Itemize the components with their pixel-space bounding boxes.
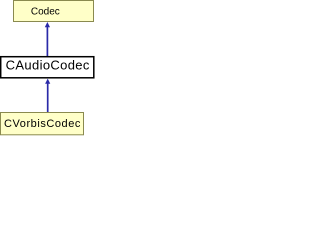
class box Codec bbox=[14, 1, 94, 22]
class box CVorbisCodec bbox=[1, 113, 84, 135]
svg-text:CVorbisCodec: CVorbisCodec bbox=[4, 118, 81, 130]
class box CAudioCodec (current) bbox=[1, 57, 94, 78]
svg-text:Codec: Codec bbox=[31, 7, 60, 18]
svg-text:CAudioCodec: CAudioCodec bbox=[6, 57, 90, 72]
inheritance arrow 2 (public, to CAudioCodec) bbox=[45, 79, 50, 112]
inheritance arrow 1 (public, to Codec) bbox=[45, 22, 50, 56]
